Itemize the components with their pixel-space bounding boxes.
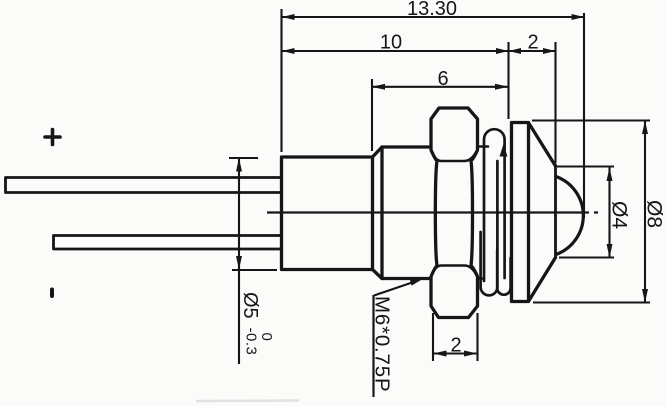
scan artifact streak [196,399,299,402]
dimension line Ø5 vertical [238,158,240,364]
spring washer coil top loop [484,129,505,281]
extension line Ø8 top [532,119,650,121]
extension line collar left x372 [371,79,373,151]
extension line Ø5 top [229,157,258,159]
body barrel Ø5 [282,157,373,270]
extension line body left [280,9,282,152]
dimension line Ø4 [608,168,610,258]
arrow 10 left [282,48,295,54]
svg-text:Ø4: Ø4 [608,201,631,229]
hex nut top facet arc [432,151,478,162]
arrow 6 left [372,84,386,90]
svg-text:13.30: 13.30 [407,0,457,20]
lead wire upper (+) [6,178,282,193]
center line axis [267,211,598,213]
arrow 13.30 right [572,14,585,20]
extension line Ø8 bottom [533,301,650,303]
dimension line 10 and 2 [282,50,556,52]
arrow 2 right [543,48,556,54]
arrow Ø5 down [236,256,242,270]
svg-text:0: 0 [258,333,275,341]
svg-text:10: 10 [380,32,402,54]
leader shelf M6 [372,295,374,397]
cone top edge [529,124,556,167]
dome base line [554,165,557,258]
leader line M6 [374,282,415,296]
svg-text:Ø8: Ø8 [643,200,666,228]
cone bottom edge [529,258,556,301]
spring washer coil bottom-left U loop [481,161,498,295]
arrow 10 right [496,48,509,54]
arrow M6 leader [410,279,424,286]
arrow washer up [500,144,508,157]
arrow 2 left [509,48,522,54]
plus polarity mark [45,130,60,145]
extension line Ø4 bottom [559,256,614,258]
collar edge stub right of nut [478,147,488,279]
threaded collar M6 [382,147,431,279]
chamfer bottom [373,270,383,279]
arrow Ø8 down [642,289,648,303]
dimension line 6 [372,86,509,88]
arrow 13.30 left [282,14,295,20]
hex nut silhouette [431,108,478,318]
arrow bottom 2 right [464,351,478,357]
extension lines bottom 2 [433,313,478,361]
LED dome lens [556,177,583,255]
svg-text:M6*0.75P: M6*0.75P [371,296,394,392]
arrow Ø4 up [607,168,613,182]
svg-text:Ø5: Ø5 [239,292,261,319]
flange bezel Ø8 [512,123,529,302]
svg-text:-0.3: -0.3 [243,328,260,356]
hex nut bottom facet arc [432,266,478,277]
dimension line 13.30 [282,16,584,18]
arrow Ø4 down [607,244,613,258]
arrow Ø5 up [236,158,242,172]
extension line dome base x555 [554,42,556,163]
extension line Ø4 top [557,165,614,167]
chamfer top [373,147,383,157]
arrow Ø8 up [642,121,648,135]
arrow 6 right [495,84,509,90]
dimension line bottom 2 [433,352,478,354]
extension line dome tip x584 [583,13,585,218]
minus polarity mark [50,290,54,297]
extension line Ø5 bottom [232,269,277,271]
svg-text:6: 6 [437,68,448,90]
spring washer coil bottom-right U loop [497,250,510,295]
svg-text:2: 2 [450,335,461,357]
lead wire lower (-) [54,236,282,250]
extension line flange left x508 [507,42,509,119]
dimension line Ø8 [644,121,646,303]
arrow bottom 2 left [433,351,447,357]
svg-text:2: 2 [527,32,538,54]
